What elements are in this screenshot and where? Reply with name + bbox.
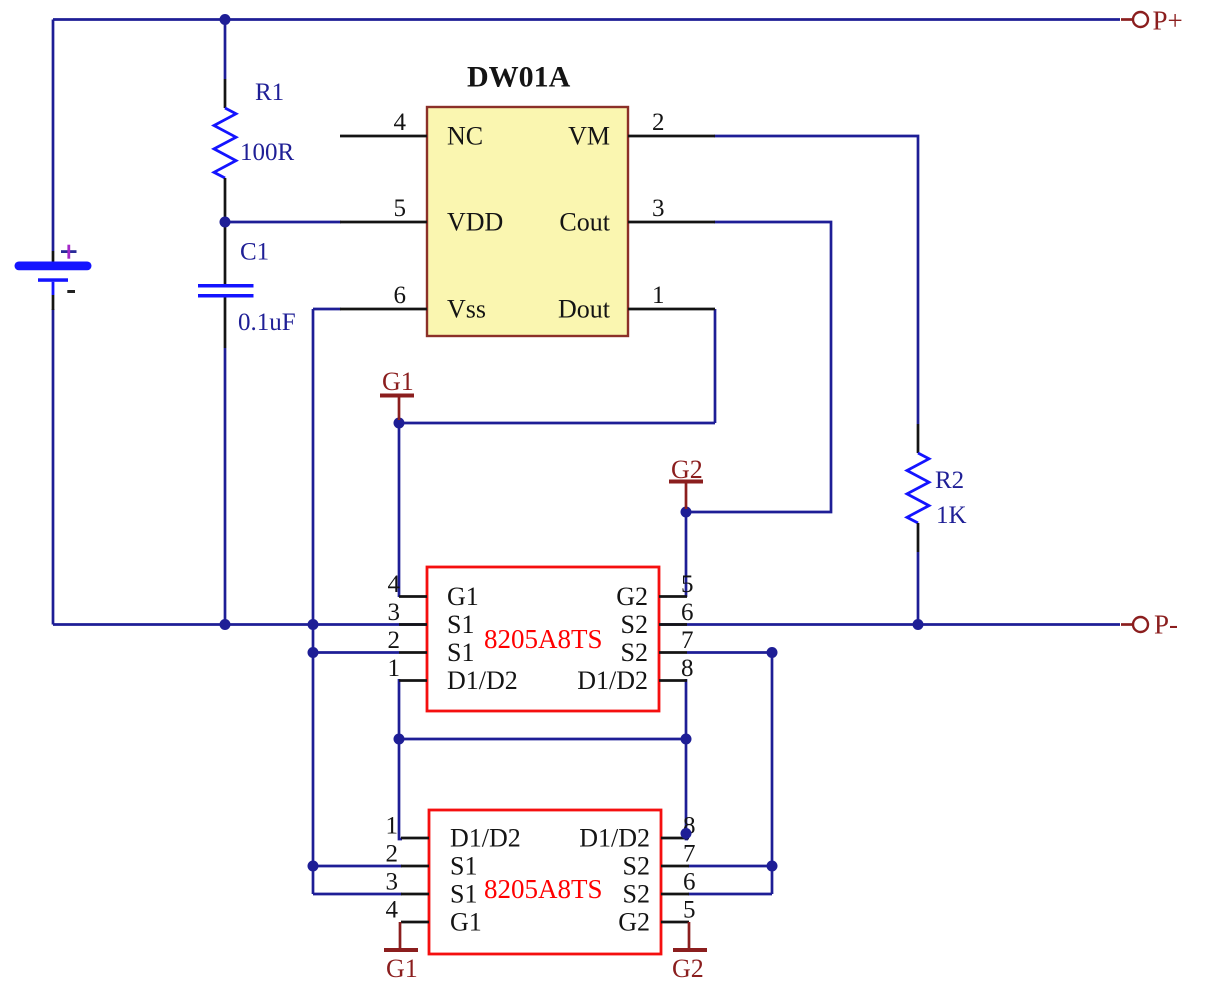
svg-text:G1: G1 bbox=[447, 582, 479, 611]
svg-text:Cout: Cout bbox=[559, 208, 610, 237]
svg-text:VM: VM bbox=[568, 122, 610, 151]
ground G1 lower bbox=[384, 922, 418, 983]
wire C1 bottom to rail bbox=[224, 348, 227, 625]
svg-text:D1/D2: D1/D2 bbox=[450, 824, 521, 853]
resistor R2 bbox=[907, 424, 967, 552]
node junction drain link left bbox=[394, 734, 405, 745]
resistor R1 bbox=[214, 79, 295, 217]
Q1 pin 3 S1 bbox=[388, 599, 428, 626]
svg-text:R1: R1 bbox=[255, 79, 284, 106]
Q1 pin 6 S2 bbox=[659, 599, 694, 626]
Q2 pin 1 D1/D2 bbox=[386, 813, 430, 840]
wire Q1 pin7 to right column bbox=[687, 653, 772, 895]
svg-text:4: 4 bbox=[388, 571, 401, 598]
svg-text:G2: G2 bbox=[618, 908, 650, 937]
Q2 pin 2 S1 bbox=[386, 841, 430, 868]
svg-text:8: 8 bbox=[681, 655, 694, 682]
wire bottom P- rail bbox=[53, 623, 1120, 626]
svg-text:3: 3 bbox=[388, 599, 401, 626]
svg-text:S1: S1 bbox=[450, 880, 477, 909]
svg-text:4: 4 bbox=[394, 109, 407, 136]
wire G1 node to Q1 pin4 bbox=[398, 420, 401, 597]
svg-text:4: 4 bbox=[386, 897, 399, 924]
svg-text:Vss: Vss bbox=[447, 295, 486, 324]
Q1 pin 7 S2 bbox=[659, 627, 694, 654]
svg-text:S2: S2 bbox=[623, 880, 650, 909]
U1 pin 1 Dout bbox=[628, 282, 715, 309]
wire G2 node to Q1 pin5 bbox=[685, 509, 688, 597]
Q2 pin 5 G2 bbox=[661, 897, 696, 924]
Q1 pin 1 D1/D2 bbox=[388, 655, 428, 682]
wire R1 top bbox=[224, 20, 227, 80]
wire Q1 pin1 down bbox=[398, 679, 401, 739]
wire Cout to G2 node bbox=[686, 222, 831, 512]
IC body Q1 8205A8TS bbox=[427, 567, 659, 711]
wire Vss net horizontal bbox=[313, 308, 341, 311]
svg-text:C1: C1 bbox=[240, 239, 269, 266]
svg-text:6: 6 bbox=[683, 869, 696, 896]
svg-text:3: 3 bbox=[386, 869, 399, 896]
wire to Q2 pin3 bbox=[313, 893, 402, 896]
ground G1 upper bbox=[380, 367, 414, 420]
wire down to Q2 pin8 bbox=[686, 739, 688, 839]
wire VM to R2 bbox=[714, 136, 918, 424]
node junction P- rail / R2 bbox=[913, 619, 924, 630]
U1 pin 6 Vss bbox=[340, 282, 427, 309]
op IC body U1 DW01A bbox=[427, 107, 628, 336]
wire R2 bottom to rail bbox=[917, 552, 920, 625]
svg-text:1: 1 bbox=[652, 282, 665, 309]
svg-text:S1: S1 bbox=[447, 638, 474, 667]
svg-text:7: 7 bbox=[683, 841, 696, 868]
node junction Q2 pin8 bbox=[681, 828, 692, 839]
svg-text:DW01A: DW01A bbox=[467, 61, 571, 94]
svg-text:5: 5 bbox=[683, 897, 696, 924]
capacitor C1 bbox=[198, 227, 296, 348]
U1 pin 3 Cout bbox=[628, 195, 715, 222]
port P- bbox=[1121, 610, 1178, 640]
Q1 pin 2 S1 bbox=[388, 627, 428, 654]
node junction G2 net bbox=[681, 507, 692, 518]
Q1 pin 5 G2 bbox=[659, 571, 694, 598]
wire to Q1 pin2 bbox=[313, 651, 399, 654]
node junction drain link right bbox=[681, 734, 692, 745]
svg-text:8205A8TS: 8205A8TS bbox=[484, 874, 603, 904]
svg-text:3: 3 bbox=[652, 195, 665, 222]
U1 pin 4 NC bbox=[340, 109, 427, 136]
svg-text:8205A8TS: 8205A8TS bbox=[484, 624, 603, 654]
battery BT1 bbox=[15, 245, 92, 310]
svg-text:G1: G1 bbox=[450, 908, 482, 937]
ground G2 lower bbox=[672, 922, 707, 983]
svg-text:P+: P+ bbox=[1153, 6, 1183, 36]
node junction P- rail / Vss column bbox=[308, 619, 319, 630]
svg-text:S2: S2 bbox=[621, 638, 648, 667]
port P+ bbox=[1121, 6, 1183, 36]
svg-text:G1: G1 bbox=[382, 367, 414, 396]
node junction Vss column / Q1 pin2 bbox=[308, 647, 319, 658]
svg-text:G1: G1 bbox=[386, 954, 418, 983]
svg-text:2: 2 bbox=[652, 109, 665, 136]
svg-text:1: 1 bbox=[388, 655, 401, 682]
wire down to Q2 pin1 bbox=[399, 739, 402, 839]
node junction top rail / R1 bbox=[220, 14, 231, 25]
Q1 pin 8 D1/D2 bbox=[659, 655, 694, 682]
U1 pin 2 VM bbox=[628, 109, 715, 136]
Q2 pin 8 D1/D2 bbox=[661, 813, 696, 840]
node junction Vss column / Q2 pin2 bbox=[308, 861, 319, 872]
svg-text:S2: S2 bbox=[623, 852, 650, 881]
svg-text:2: 2 bbox=[386, 841, 399, 868]
Q2 pin 7 S2 bbox=[661, 841, 696, 868]
svg-text:S2: S2 bbox=[621, 610, 648, 639]
svg-text:G2: G2 bbox=[616, 582, 648, 611]
ground G2 upper bbox=[669, 455, 703, 509]
Q1 pin 4 G1 bbox=[388, 571, 428, 598]
svg-text:2: 2 bbox=[388, 627, 401, 654]
svg-text:S1: S1 bbox=[447, 610, 474, 639]
svg-text:7: 7 bbox=[681, 627, 694, 654]
svg-text:VDD: VDD bbox=[447, 208, 503, 237]
node junction VDD / R1 / C1 bbox=[220, 217, 231, 228]
svg-text:NC: NC bbox=[447, 122, 483, 151]
svg-text:D1/D2: D1/D2 bbox=[447, 666, 518, 695]
wire drain link between Q1 and Q2 bbox=[399, 738, 686, 741]
wire to Q2 pin2 bbox=[313, 865, 402, 868]
svg-text:1: 1 bbox=[386, 813, 399, 840]
svg-text:G2: G2 bbox=[672, 954, 704, 983]
wire Vss column vertical bbox=[312, 309, 315, 894]
U1 pin 5 VDD bbox=[340, 195, 427, 222]
svg-text:P-: P- bbox=[1154, 610, 1178, 640]
node junction G1 net bbox=[394, 418, 405, 429]
svg-text:1K: 1K bbox=[936, 502, 967, 529]
wire Q2 pin7 bbox=[688, 865, 772, 868]
wire Dout vertical bbox=[714, 309, 717, 423]
Q2 pin 3 S1 bbox=[386, 869, 430, 896]
svg-text:D1/D2: D1/D2 bbox=[579, 824, 650, 853]
svg-text:6: 6 bbox=[394, 282, 407, 309]
wire Q2 pin6 bbox=[688, 893, 772, 896]
svg-text:S1: S1 bbox=[450, 852, 477, 881]
node junction P- rail / C1 column bbox=[220, 619, 231, 630]
node junction Q1 pin7 corner bbox=[767, 647, 778, 658]
svg-text:D1/D2: D1/D2 bbox=[577, 666, 648, 695]
wire VDD net bbox=[225, 221, 341, 224]
svg-text:5: 5 bbox=[394, 195, 407, 222]
Q2 pin 6 S2 bbox=[661, 869, 696, 896]
wire left battery to P- rail bbox=[52, 309, 55, 625]
wire Q1 pin8 down bbox=[685, 679, 688, 739]
svg-text:100R: 100R bbox=[240, 139, 295, 166]
wire left battery drop (top) bbox=[52, 20, 55, 252]
Q2 pin 4 G1 bbox=[386, 897, 430, 924]
svg-text:6: 6 bbox=[681, 599, 694, 626]
svg-text:Dout: Dout bbox=[558, 295, 611, 324]
wire G1 node horizontal bbox=[399, 422, 715, 425]
IC body Q2 8205A8TS bbox=[429, 810, 661, 954]
svg-text:5: 5 bbox=[681, 571, 694, 598]
wire top P+ rail bbox=[53, 18, 1120, 21]
node junction right column / Q2 pin7 bbox=[767, 861, 778, 872]
svg-text:0.1uF: 0.1uF bbox=[238, 309, 296, 336]
svg-text:R2: R2 bbox=[935, 467, 964, 494]
